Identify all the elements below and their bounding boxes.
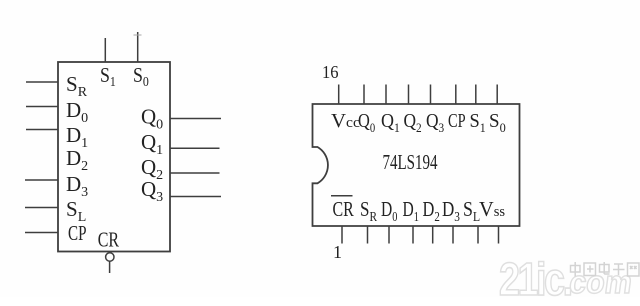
svg-text:Q2: Q2 xyxy=(404,110,422,135)
watermark 21ic.com xyxy=(499,252,571,306)
pin 6 stub xyxy=(452,226,454,244)
svg-text:16: 16 xyxy=(322,62,339,82)
pin 5 stub xyxy=(432,226,434,244)
CR overline xyxy=(331,195,353,197)
svg-text:S0: S0 xyxy=(489,111,506,135)
pin 13 stub xyxy=(408,85,410,105)
wire Q1 output xyxy=(170,147,220,149)
pin 16 stub xyxy=(338,85,340,105)
IC U2 74LS194 package outline with notch xyxy=(313,104,520,226)
svg-text:Vcc: Vcc xyxy=(331,110,360,132)
wire S0 input xyxy=(137,32,139,62)
svg-text:CP: CP xyxy=(448,109,466,132)
svg-text:S1: S1 xyxy=(470,110,486,135)
svg-text:SR: SR xyxy=(360,198,377,224)
pin 8 stub xyxy=(498,226,500,244)
svg-text:D0: D0 xyxy=(66,98,88,126)
wire D1 input xyxy=(26,129,58,131)
svg-text:Vss: Vss xyxy=(479,199,505,221)
svg-text:CR: CR xyxy=(98,228,120,252)
wire D0 input xyxy=(26,106,58,108)
svg-text:D0: D0 xyxy=(381,198,397,225)
register block U1 outline xyxy=(58,62,170,252)
svg-text:D2: D2 xyxy=(423,198,440,224)
pin 1 stub xyxy=(341,226,343,244)
wire SL input xyxy=(25,207,58,209)
svg-text:D3: D3 xyxy=(442,198,460,224)
svg-text:Q1: Q1 xyxy=(381,110,400,135)
wire Q0 output xyxy=(170,118,221,120)
svg-text:Q1: Q1 xyxy=(141,130,163,158)
wire CR input xyxy=(109,261,111,273)
svg-text:S1: S1 xyxy=(100,65,116,89)
svg-text:74LS194: 74LS194 xyxy=(383,151,438,174)
svg-text:1: 1 xyxy=(333,242,342,262)
CR active-low bubble xyxy=(106,253,114,261)
wire S1 input xyxy=(104,38,106,62)
watermark hanzi 5 xyxy=(628,263,640,276)
svg-text:CP: CP xyxy=(68,222,86,245)
wire SR input xyxy=(26,81,58,83)
pin 10 stub xyxy=(475,85,477,105)
svg-text:Q0: Q0 xyxy=(358,110,375,136)
pin 7 stub xyxy=(477,226,479,244)
wire Q2 output xyxy=(170,172,220,174)
pin 4 stub xyxy=(412,226,414,244)
wire CP input xyxy=(25,232,58,234)
svg-text:Q3: Q3 xyxy=(426,110,444,135)
svg-text:SR: SR xyxy=(66,72,88,100)
svg-text:D1: D1 xyxy=(403,198,419,225)
svg-text:SL: SL xyxy=(463,199,480,224)
watermark hanzi 3 xyxy=(600,262,610,274)
wire Q3 output xyxy=(170,196,221,198)
watermark hanzi 2 xyxy=(584,263,596,276)
pin 12 stub xyxy=(430,85,432,105)
wire S0 tick xyxy=(134,34,142,36)
svg-text:CR: CR xyxy=(333,198,355,222)
wire D3 input xyxy=(25,179,58,181)
pin 15 stub xyxy=(363,85,365,105)
pin 11 stub xyxy=(455,85,457,105)
svg-text:Q0: Q0 xyxy=(141,105,163,133)
pin 14 stub xyxy=(385,85,387,105)
pin 3 stub xyxy=(388,226,390,244)
watermark hanzi 4 xyxy=(613,264,625,275)
pin 9 stub xyxy=(496,85,498,105)
svg-text:S0: S0 xyxy=(133,65,149,89)
pin 2 stub xyxy=(367,226,369,244)
watermark hanzi 1 xyxy=(571,262,581,277)
svg-text:D3: D3 xyxy=(66,172,88,200)
